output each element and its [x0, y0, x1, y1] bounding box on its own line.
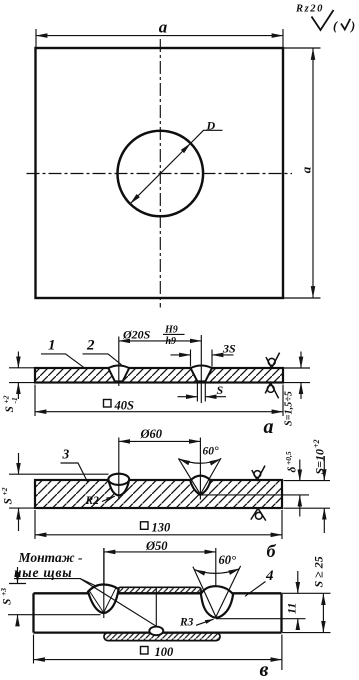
- label S+2-1: [1, 395, 19, 412]
- svg-text:S: S: [217, 383, 224, 397]
- weld b1 crown ellipse: [108, 474, 129, 485]
- svg-text:Ø20S: Ø20S: [122, 328, 151, 342]
- leader D: [191, 130, 223, 143]
- vertical centerline: [159, 39, 161, 308]
- svg-text:100: 100: [155, 645, 175, 659]
- svg-text:a: a: [159, 17, 168, 36]
- weld b2 dome: [190, 476, 211, 481]
- svg-text:): ): [350, 19, 355, 33]
- diameter arrow: [130, 143, 190, 203]
- dim Ø20S: [119, 340, 202, 342]
- svg-text:D: D: [206, 119, 216, 133]
- svg-text:11: 11: [285, 603, 299, 614]
- dim S=1,5..5: [300, 352, 302, 369]
- dim 3S extensions: [191, 350, 213, 367]
- dim a top extension lines: [36, 29, 283, 48]
- weld a1 centerline: [118, 337, 120, 387]
- surface symbol bottom b: [251, 508, 266, 520]
- dim S=10: [323, 456, 325, 481]
- angle arc 60 v: [194, 569, 240, 574]
- leaders Montazh: [14, 579, 158, 628]
- top overlay band: [118, 587, 202, 593]
- weld b1 centerline: [118, 438, 120, 500]
- dim 40S extensions: [35, 385, 283, 417]
- svg-text:R3: R3: [179, 617, 194, 629]
- svg-text:+0,5: +0,5: [284, 451, 293, 465]
- dim a right: [312, 49, 314, 298]
- dim a top: [36, 35, 283, 37]
- dim 100 extensions: [34, 635, 282, 671]
- weld b1 cup: [109, 481, 129, 496]
- interface line right: [216, 618, 306, 620]
- label square 100: [141, 647, 149, 655]
- svg-text:3S: 3S: [222, 342, 236, 356]
- svg-text:S: S: [3, 498, 15, 504]
- delta extension line: [201, 494, 309, 496]
- svg-text:4: 4: [265, 568, 274, 584]
- label square 40S: [104, 400, 112, 408]
- plate strip section b: [35, 480, 282, 508]
- joint line: [155, 589, 157, 628]
- dim S>=25: [322, 594, 324, 633]
- dim S+3 extension top: [9, 583, 26, 585]
- square plate: [36, 48, 284, 298]
- svg-text:в: в: [260, 659, 269, 680]
- label S+2: [0, 487, 15, 504]
- 60 groove legs b: [178, 458, 221, 494]
- svg-text:S=10: S=10: [313, 449, 327, 475]
- 60 groove legs v: [193, 566, 241, 617]
- weld v1 groove lines: [89, 587, 116, 613]
- svg-text:2: 2: [86, 338, 95, 354]
- weld seam a1: [108, 366, 129, 382]
- plate v left edge: [32, 593, 34, 632]
- dim S+2 left b: [18, 453, 20, 474]
- svg-text:Ø60: Ø60: [140, 427, 163, 441]
- interface line left: [8, 614, 101, 616]
- svg-text:a: a: [299, 166, 314, 173]
- svg-text:+3: +3: [0, 588, 8, 596]
- weld a2 centerline: [200, 335, 202, 403]
- svg-text:Ø50: Ø50: [145, 539, 168, 553]
- dim S thickness left: [17, 352, 19, 368]
- dim a right extension lines: [284, 48, 321, 298]
- label S+3: [0, 588, 14, 605]
- dim S+3: [17, 567, 19, 584]
- plate v bottom edge: [34, 631, 282, 633]
- svg-text:R2: R2: [85, 495, 100, 507]
- svg-text:S ≥ 25: S ≥ 25: [312, 556, 326, 587]
- weld v2 centerline: [215, 548, 217, 586]
- dim S thickness extensions left: [9, 368, 35, 383]
- bottom overlay band: [104, 633, 220, 641]
- horizontal centerline: [27, 173, 293, 175]
- Ø50 left extension: [103, 548, 105, 584]
- svg-text:a: a: [264, 416, 274, 438]
- label square 130: [141, 522, 149, 530]
- dim delta: [299, 460, 301, 481]
- svg-text:+2: +2: [0, 487, 9, 495]
- svg-text:+2: +2: [312, 439, 321, 448]
- dim 11: [297, 571, 299, 593]
- plate v right edge: [280, 593, 282, 632]
- dim S+2 extensions left b: [9, 474, 109, 508]
- dim S=10 extensions: [284, 481, 331, 509]
- dim Ø60: [119, 440, 201, 442]
- svg-text:130: 130: [152, 521, 172, 535]
- surface symbol top a: [266, 353, 280, 368]
- dim 130 extensions: [35, 510, 282, 539]
- root weld bead: [149, 627, 163, 636]
- plate v top edge: [34, 592, 282, 594]
- svg-text:S: S: [2, 599, 14, 605]
- dim S root extensions: [197, 384, 205, 402]
- svg-text:S=1,5÷5: S=1,5÷5: [284, 391, 295, 426]
- dim Ø50: [104, 551, 216, 553]
- weld v1 centerline: [103, 548, 105, 618]
- svg-text:(: (: [333, 19, 338, 33]
- label S=10+2: [312, 439, 327, 474]
- weld seam a2: [191, 366, 212, 382]
- weld v1: [88, 584, 119, 612]
- dim 100: [34, 659, 282, 661]
- roughness check symbol: [312, 10, 334, 30]
- plate strip section a: [35, 368, 283, 383]
- svg-text:Монтаж -: Монтаж -: [18, 550, 84, 565]
- surface symbol bottom a: [265, 383, 278, 399]
- svg-text:Rz20: Rz20: [295, 4, 324, 15]
- hole circle D: [118, 131, 204, 217]
- angle arc 60 b: [179, 459, 221, 463]
- svg-text:h9: h9: [166, 336, 177, 347]
- svg-text:б: б: [267, 541, 277, 561]
- dim S=1,5..5 extensions: [284, 368, 310, 383]
- dim S root: [178, 396, 198, 398]
- svg-text:3: 3: [62, 447, 70, 462]
- label delta+0,5: [284, 451, 298, 472]
- svg-text:60°: 60°: [219, 553, 237, 567]
- svg-text:-1: -1: [10, 397, 19, 403]
- dim S>=25 extensions: [282, 593, 330, 632]
- svg-text:40S: 40S: [114, 399, 135, 413]
- svg-text:1: 1: [48, 338, 56, 354]
- dim 130: [35, 534, 282, 536]
- svg-text:ные щвы: ные щвы: [14, 565, 72, 580]
- surface symbol top b: [252, 466, 265, 480]
- svg-text:60°: 60°: [203, 446, 220, 458]
- dim 3S: [171, 354, 191, 356]
- svg-text:δ: δ: [287, 467, 299, 473]
- dim 40S: [35, 411, 283, 413]
- svg-text:S: S: [4, 406, 16, 412]
- weld b2 centerline: [199, 438, 201, 500]
- weld b2 cup: [190, 480, 211, 495]
- weld v2: [201, 586, 233, 618]
